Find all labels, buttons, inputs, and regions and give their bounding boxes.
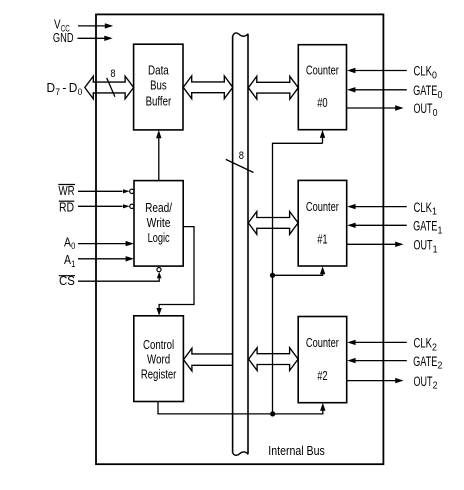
svg-text:GND: GND — [53, 30, 74, 45]
pin label RD with overline — [59, 200, 75, 214]
pin label WR with overline — [58, 184, 75, 198]
svg-text:Control: Control — [143, 338, 174, 352]
pin label CLK2 — [414, 336, 438, 354]
svg-text:Data: Data — [148, 63, 169, 77]
wire CLK2 — [347, 340, 407, 345]
data bus double arrow D7-D0 — [85, 76, 134, 99]
svg-text:0: 0 — [78, 87, 83, 97]
pin label OUT0 — [414, 101, 438, 119]
wire into Counter 1 bottom — [273, 266, 326, 275]
block Counter 0 — [298, 45, 346, 130]
block Counter 1 — [298, 180, 347, 266]
svg-text:7: 7 — [55, 87, 60, 97]
svg-text:-: - — [62, 80, 66, 95]
svg-text:2: 2 — [432, 342, 437, 353]
svg-text:0: 0 — [71, 241, 75, 251]
wire OUT0 — [347, 105, 404, 110]
svg-text:2: 2 — [433, 381, 438, 392]
wire Read/Write Logic to Control Word Register — [156, 227, 194, 316]
double arrow internal bus to Counter 2 — [249, 348, 299, 371]
pin label A0 — [64, 235, 75, 251]
svg-text:Write: Write — [147, 216, 171, 230]
svg-text:0: 0 — [433, 108, 438, 119]
svg-text:CLK: CLK — [414, 200, 433, 216]
svg-text:#1: #1 — [317, 233, 327, 247]
svg-text:Counter: Counter — [306, 200, 339, 214]
wire GND — [78, 36, 113, 41]
svg-text:1: 1 — [71, 259, 75, 269]
junction node at Counter 1 branch — [270, 273, 275, 278]
svg-text:D: D — [69, 80, 78, 95]
wire OUT2 — [347, 378, 404, 383]
pin label Vcc — [54, 17, 70, 34]
block Data Bus Buffer — [134, 44, 183, 130]
svg-text:Internal Bus: Internal Bus — [268, 443, 325, 458]
svg-text:Buffer: Buffer — [146, 94, 172, 108]
wire GATE0 — [347, 87, 407, 92]
pin label GATE2 — [413, 354, 443, 372]
double arrow Data Bus Buffer to internal bus — [183, 76, 233, 99]
svg-text:OUT: OUT — [414, 101, 433, 117]
svg-text:0: 0 — [432, 71, 437, 82]
wire CS — [78, 268, 162, 282]
vertical routing wire from Counter 0 feed — [273, 143, 323, 414]
pin label CLK1 — [414, 200, 438, 218]
wire into Counter 2 bottom — [320, 403, 325, 411]
pin label OUT2 — [414, 374, 438, 392]
slash width marker on internal bus — [226, 159, 254, 172]
wire GATE2 — [347, 358, 407, 363]
svg-text:Read/: Read/ — [145, 201, 172, 215]
svg-text:CLK: CLK — [414, 336, 433, 352]
pin label OUT1 — [414, 238, 438, 256]
block Control Word Register — [134, 316, 184, 402]
wire OUT1 — [347, 242, 404, 247]
slash width marker on D7-D0 bus — [107, 78, 115, 97]
svg-text:#2: #2 — [317, 369, 327, 383]
svg-text:RD: RD — [59, 200, 74, 214]
svg-text:Bus: Bus — [150, 79, 167, 93]
svg-text:GATE: GATE — [413, 219, 437, 235]
pin label CS with overline — [59, 274, 75, 288]
junction node at bottom feed — [270, 411, 275, 416]
internal bus top wave — [233, 33, 248, 37]
wire Control Word Register to counters bottom feed — [158, 402, 323, 414]
svg-text:CLK: CLK — [414, 64, 433, 80]
pin label D7 - D0 — [47, 80, 83, 97]
block Read/Write Logic — [134, 181, 183, 267]
svg-text:1: 1 — [438, 225, 443, 236]
internal bus bottom wave — [233, 452, 248, 455]
svg-text:WR: WR — [59, 184, 75, 198]
pin label CLK0 — [414, 64, 438, 82]
svg-text:0: 0 — [438, 90, 443, 101]
wire GATE1 — [347, 223, 407, 228]
svg-text:Logic: Logic — [148, 231, 170, 245]
wire CLK0 — [347, 68, 407, 73]
svg-text:8: 8 — [239, 150, 244, 162]
wire Read/Write Logic to Data Bus Buffer — [156, 130, 161, 181]
svg-text:2: 2 — [438, 361, 443, 372]
internal bus right edge — [247, 34, 249, 455]
svg-text:GATE: GATE — [413, 354, 437, 370]
svg-text:8: 8 — [110, 68, 115, 80]
wire Vcc — [78, 23, 113, 28]
svg-text:GATE: GATE — [413, 83, 437, 99]
wire WR — [78, 189, 134, 193]
svg-text:1: 1 — [433, 244, 438, 255]
wire into Counter 0 bottom — [320, 130, 325, 143]
svg-text:Register: Register — [141, 367, 177, 381]
chip outer boundary — [96, 14, 383, 464]
svg-text:Counter: Counter — [306, 336, 339, 350]
double arrow internal bus to Counter 1 — [248, 212, 298, 235]
pin label GATE1 — [413, 219, 443, 237]
wire A0 — [78, 241, 134, 246]
svg-text:OUT: OUT — [414, 238, 433, 254]
svg-text:#0: #0 — [317, 96, 327, 110]
pin label A1 — [64, 253, 75, 269]
svg-text:OUT: OUT — [414, 374, 433, 390]
internal bus left edge — [232, 36, 234, 452]
wire CLK1 — [347, 204, 407, 209]
pin label GATE0 — [413, 83, 443, 101]
svg-text:Word: Word — [147, 353, 170, 367]
single arrow internal bus to Control Word Register — [184, 348, 233, 371]
svg-text:1: 1 — [432, 207, 437, 218]
block Counter 2 — [298, 317, 347, 403]
svg-text:Counter: Counter — [306, 64, 339, 78]
svg-text:D: D — [47, 80, 56, 95]
wire A1 — [78, 256, 134, 261]
wire RD — [78, 204, 134, 208]
double arrow internal bus to Counter 0 — [248, 76, 298, 99]
